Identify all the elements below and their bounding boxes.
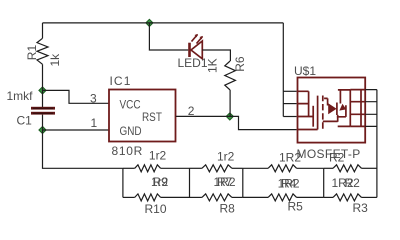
svg-text:1k: 1k (48, 53, 62, 67)
wire ladder junction vertical (323, 168, 325, 197)
resistor R8 (190, 196, 202, 198)
U$1 drain connections (323, 90, 351, 127)
svg-text:3: 3 (90, 92, 97, 106)
svg-text:VCC: VCC (119, 99, 140, 112)
transistor U$1 MOSFET-P outer box (298, 78, 366, 143)
resistor R1 (42, 23, 44, 38)
U$1 channel bars (322, 96, 324, 129)
wire ladder junction vertical (122, 168, 124, 197)
wire drain pins to rail (365, 90, 377, 127)
resistor R9 (123, 167, 135, 169)
wire drain rail down to ladder (376, 90, 378, 198)
svg-text:R10: R10 (145, 202, 167, 216)
svg-text:R4: R4 (281, 176, 297, 190)
capacitor C1 (42, 90, 44, 107)
wire junction to IC pin3 (43, 90, 110, 103)
svg-text:IC1: IC1 (110, 74, 132, 88)
op-amp IC1 box (109, 90, 176, 142)
wire gate net (230, 116, 297, 129)
wire ladder junction vertical (242, 168, 244, 197)
node junction C1/pin1/ladder (39, 126, 46, 133)
svg-text:C1: C1 (17, 114, 33, 128)
wire source pin stub 1 (283, 90, 296, 92)
svg-text:2: 2 (188, 104, 195, 118)
svg-text:R5: R5 (288, 200, 304, 214)
wire left rail down to ladder (43, 130, 123, 168)
LED LED1 (188, 43, 191, 57)
wire source pin stub 3 (283, 116, 296, 118)
resistor R10 (123, 196, 135, 198)
svg-text:1r2: 1r2 (217, 150, 235, 164)
resistor R5 (243, 196, 268, 198)
svg-text:GND: GND (119, 125, 141, 138)
LED arrows (192, 35, 203, 44)
U$1 source arrow (324, 98, 328, 105)
svg-text:R2: R2 (329, 151, 345, 165)
resistor R2 (324, 167, 333, 169)
svg-text:1: 1 (91, 116, 98, 130)
svg-text:R8: R8 (220, 202, 236, 216)
U$1 gate (298, 96, 318, 130)
node junction R1/C1/pin3 (39, 87, 46, 94)
resistor R7 (190, 167, 202, 169)
U$1 source pin lines (298, 91, 314, 116)
wire top rail VCC (43, 22, 284, 24)
svg-text:R6: R6 (233, 56, 247, 72)
node junction R6/pin2/gate (226, 113, 233, 120)
resistor R6 (225, 61, 236, 90)
resistor R3 (324, 196, 333, 198)
svg-text:R9: R9 (153, 175, 169, 189)
svg-text:R7: R7 (217, 175, 233, 189)
svg-text:R2: R2 (345, 176, 361, 190)
svg-text:1R2: 1R2 (279, 151, 301, 165)
wire IC pin2 to junction (176, 115, 230, 117)
wire LED branch down (149, 23, 188, 50)
U$1 body diode (339, 104, 346, 111)
svg-text:810R: 810R (112, 144, 144, 158)
svg-text:R3: R3 (353, 201, 369, 215)
wire junction to IC pin1 (43, 129, 110, 131)
resistor R4 (243, 167, 268, 169)
svg-text:1K: 1K (205, 58, 219, 73)
wire source pin stub 2 (283, 103, 296, 105)
svg-text:R1: R1 (25, 45, 39, 61)
svg-text:1mkf: 1mkf (7, 89, 34, 103)
wire LED to R6 (202, 50, 230, 61)
wire VCC rail down to MOSFET source pins (282, 23, 284, 117)
wire ladder junction vertical (189, 168, 191, 197)
U$1 drain pin grid (350, 90, 361, 127)
node junction top rail/LED branch (146, 19, 153, 26)
svg-text:LED1: LED1 (178, 56, 208, 70)
svg-text:1r2: 1r2 (149, 149, 167, 163)
svg-text:RST: RST (142, 111, 162, 124)
svg-text:U$1: U$1 (294, 64, 316, 78)
